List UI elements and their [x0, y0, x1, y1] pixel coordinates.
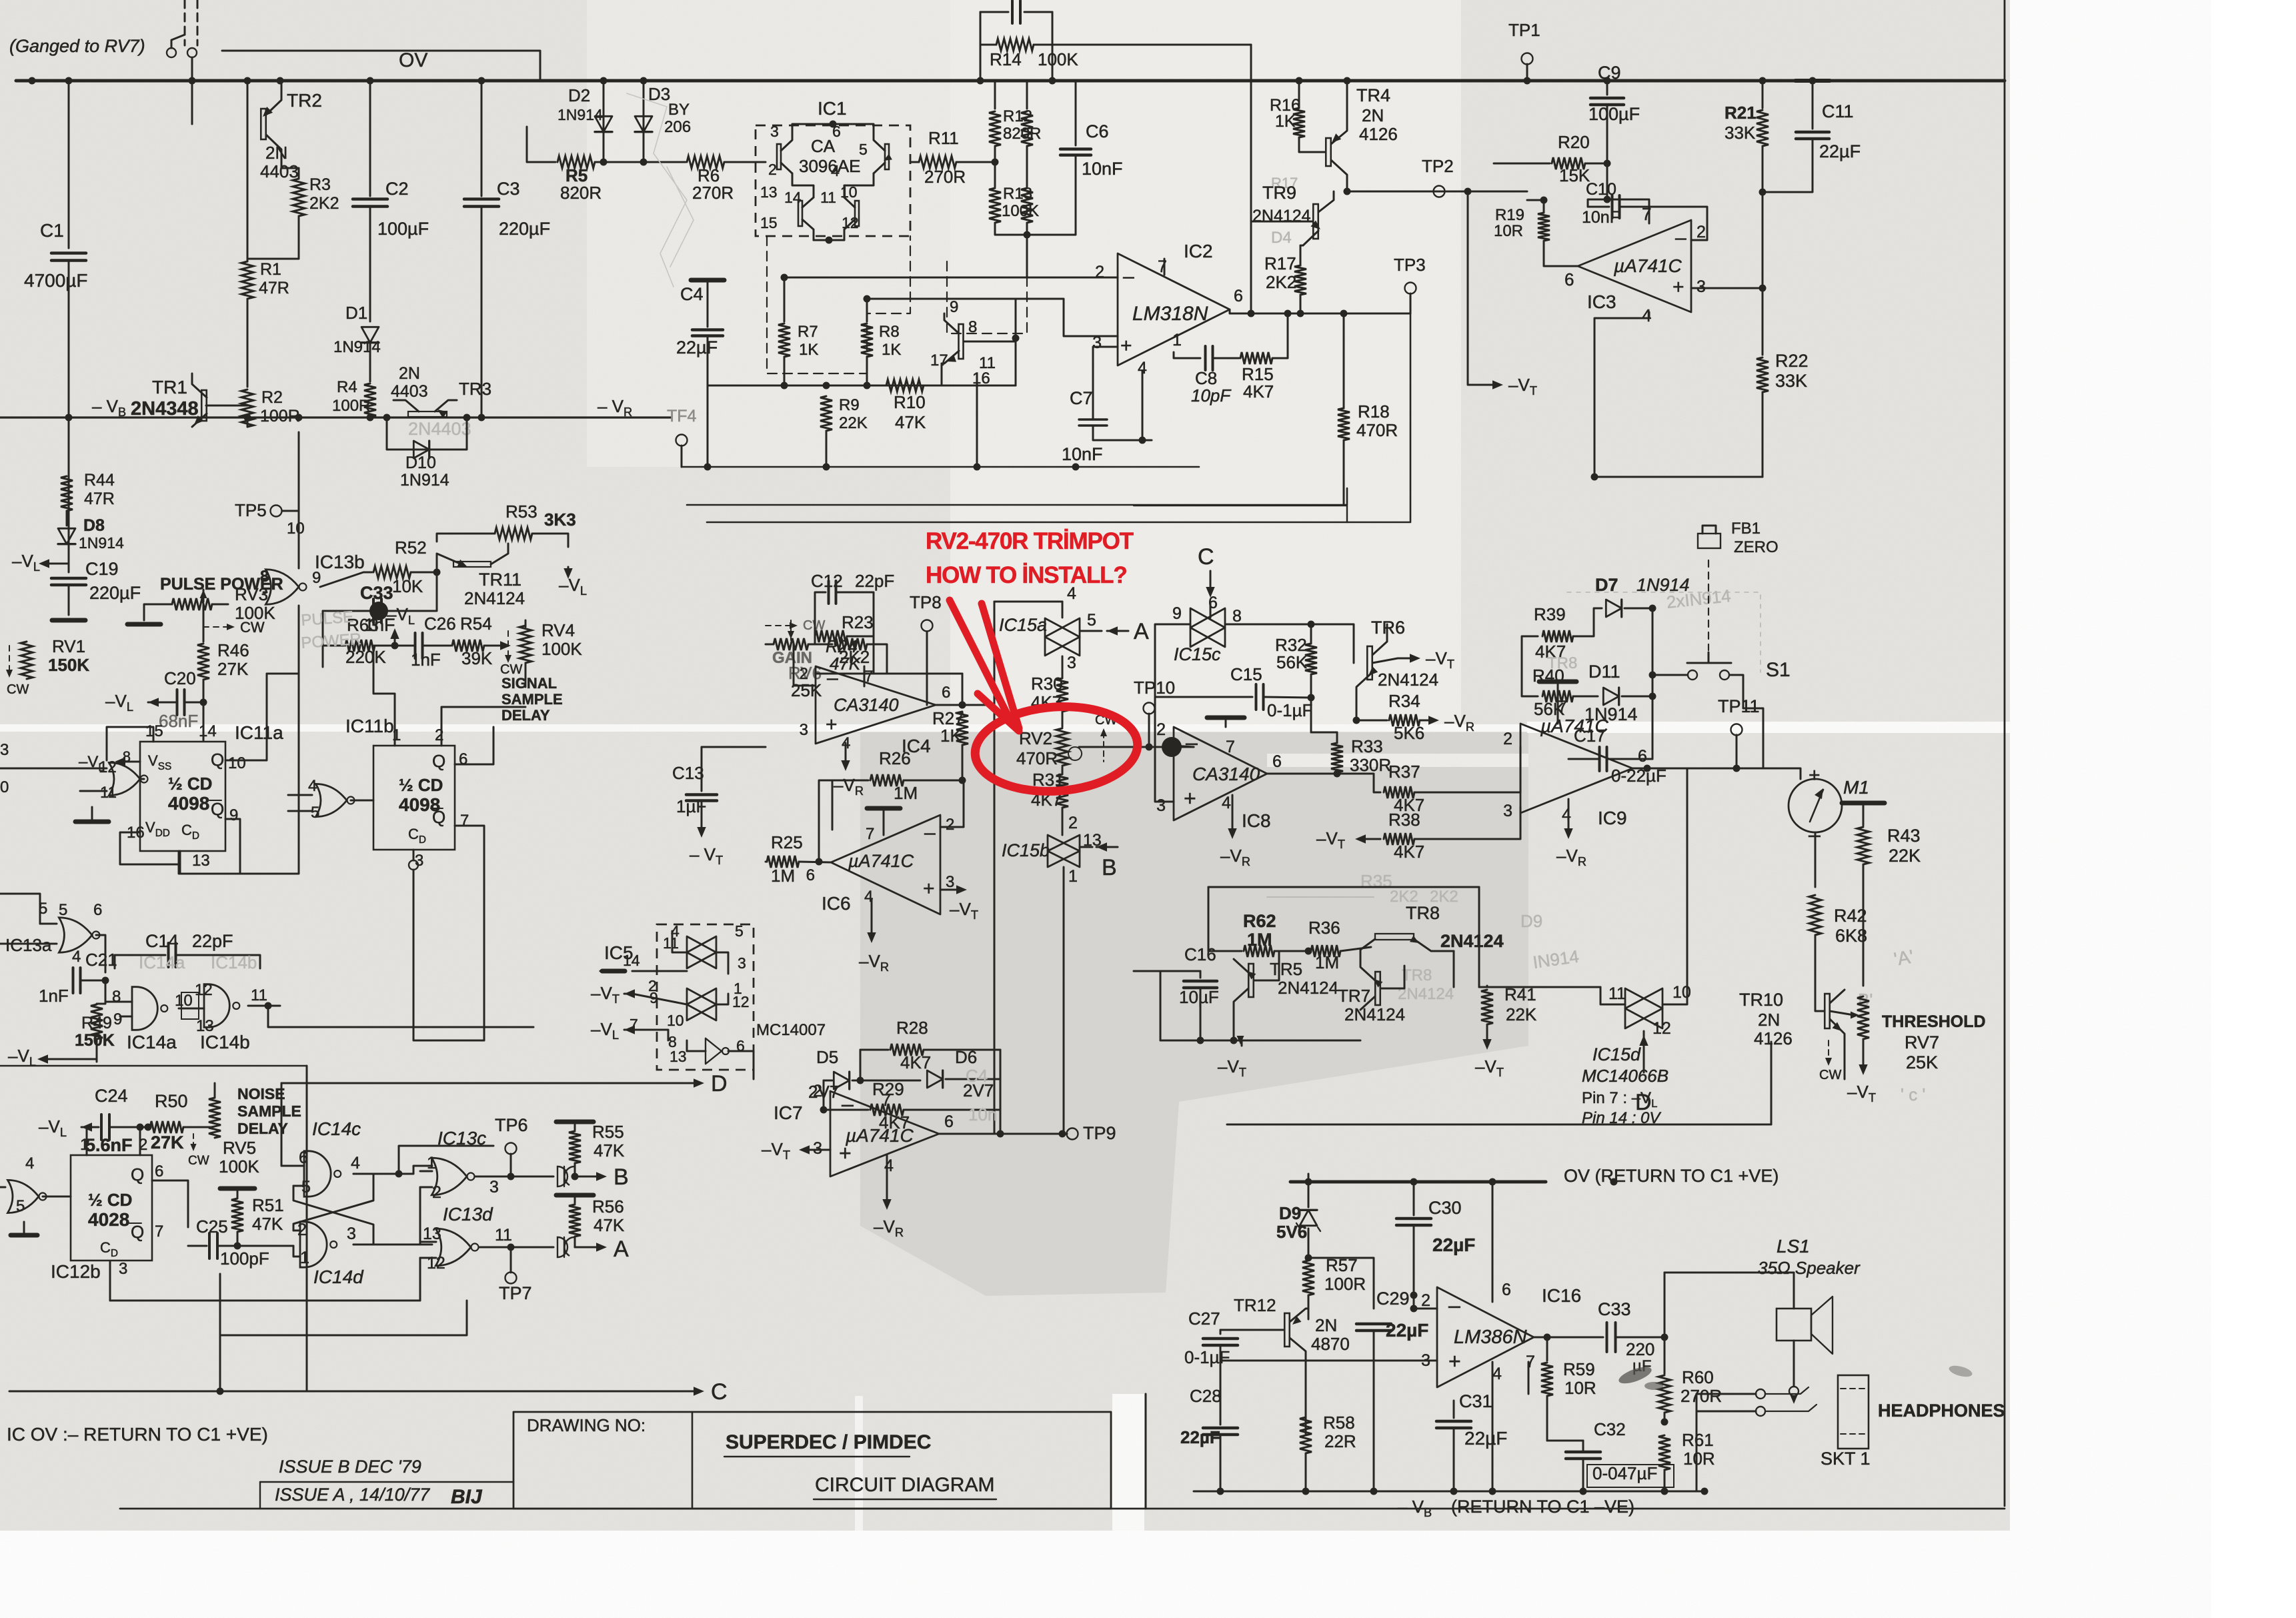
wire C7 bottom to pin4 [1093, 426, 1152, 440]
wire R13 bottom [995, 223, 1027, 235]
svg-text:BY: BY [668, 101, 690, 119]
wire C26 left [395, 645, 415, 647]
svg-text:10pF: 10pF [1191, 385, 1232, 406]
svg-text:B: B [614, 1164, 629, 1190]
node d7 d11 [1649, 605, 1656, 612]
svg-text:R55: R55 [592, 1122, 624, 1142]
transistor TR11 [453, 562, 491, 567]
switch S contacts top-left [167, 48, 176, 57]
svg-text:22µF: 22µF [1819, 141, 1861, 161]
svg-text:IC9: IC9 [1598, 808, 1627, 828]
wire out right [962, 704, 994, 706]
node r51 c25 [234, 1243, 241, 1250]
wire TP10 stub [1148, 714, 1150, 747]
NOR gate IC13c [431, 1158, 467, 1195]
node R19 TP2line [1540, 197, 1548, 204]
svg-text:R36: R36 [1308, 918, 1340, 938]
svg-text:R17: R17 [1264, 253, 1296, 273]
svg-text:3: 3 [347, 1225, 356, 1243]
svg-text:8: 8 [1232, 607, 1242, 626]
transistor Q inside IC1 b [885, 144, 889, 169]
resistor R6 [687, 156, 724, 168]
wire ic15d r [1662, 768, 1687, 1004]
svg-text:½ CD: ½ CD [168, 774, 212, 794]
wire bottom1598 [0, 1065, 307, 1066]
RV7 cw dashed [1828, 1040, 1829, 1062]
wire rail700 [682, 466, 1199, 468]
svg-text:+: + [1448, 1349, 1461, 1373]
wire 14d in1 [293, 1230, 300, 1232]
wire r57 bottom [1308, 1295, 1310, 1319]
svg-text:220µF: 220µF [89, 583, 141, 603]
wire ic15b down [1063, 867, 1065, 1134]
node 287 [1344, 188, 1351, 195]
svg-text:TR2: TR2 [287, 90, 322, 111]
wire R8 bottom [866, 357, 868, 385]
resistor R19 [1538, 213, 1550, 241]
wire ic8 pin4 [1232, 795, 1234, 835]
wire left down [1160, 971, 1162, 1040]
svg-text:–: – [1448, 1293, 1460, 1317]
wire rail758b [1134, 506, 1347, 522]
node 14b out [265, 1002, 272, 1010]
ground above R43 [1842, 801, 1885, 806]
wire C15 left [1155, 696, 1252, 698]
svg-text:B: B [1102, 855, 1117, 880]
svg-text:470R: 470R [1356, 420, 1398, 440]
svg-text:MC14007: MC14007 [756, 1021, 826, 1039]
svg-text:RV3: RV3 [235, 584, 268, 604]
svg-text:C19: C19 [85, 559, 119, 579]
white sliver bottom left page edge [855, 1396, 863, 1531]
wire TP1 stub [1526, 64, 1528, 81]
wire gnd stub [91, 807, 93, 819]
svg-text:A: A [1134, 619, 1149, 644]
wire mid rail 578 [708, 385, 1016, 387]
svg-text:9: 9 [312, 569, 321, 587]
svg-text:2N4124: 2N4124 [1344, 1004, 1405, 1024]
svg-text:C21: C21 [85, 950, 117, 970]
svg-text:TF4: TF4 [667, 407, 697, 426]
wire r59 bottom [1546, 1397, 1548, 1441]
svg-text:1nF: 1nF [39, 986, 69, 1006]
wire 14b out [248, 1005, 280, 1007]
svg-text:1nF: 1nF [411, 650, 441, 670]
svg-text:IC11b: IC11b [345, 716, 394, 736]
svg-text:56K: 56K [1276, 652, 1308, 672]
wire r58 bottom [1305, 1453, 1307, 1491]
node c33 r60 [1661, 1334, 1668, 1341]
svg-text:35Ω Speaker: 35Ω Speaker [1758, 1258, 1861, 1278]
svg-text:3: 3 [1696, 277, 1706, 296]
wire R24 left [814, 636, 816, 644]
resistor R42 [1809, 895, 1821, 935]
wire R14 left lead [980, 44, 996, 46]
svg-text:2N4124: 2N4124 [1378, 670, 1438, 690]
wire C19 bottom [68, 586, 70, 615]
svg-text:TP5: TP5 [235, 500, 267, 520]
wire R7 bottom [784, 357, 786, 385]
svg-text:C7: C7 [1070, 388, 1093, 408]
svg-text:D8: D8 [83, 516, 105, 535]
wire y1950 [110, 1300, 420, 1302]
wire y2002 [220, 1301, 467, 1335]
svg-text:13: 13 [670, 1048, 687, 1065]
junction dots R5 line [600, 159, 608, 166]
op-amp IC6 uA741C (points left) [831, 815, 940, 914]
smudge marks [1616, 1364, 1653, 1387]
svg-text:13: 13 [423, 1225, 441, 1243]
svg-text:12: 12 [195, 981, 213, 999]
issue box lines [260, 1481, 513, 1483]
wire R22 top [1762, 288, 1764, 355]
svg-text:3: 3 [489, 1178, 499, 1196]
svg-text:R52: R52 [395, 538, 427, 558]
wire pin4 down [1594, 312, 1649, 477]
svg-text:27K: 27K [217, 659, 249, 679]
wire c17 right [1607, 696, 1652, 759]
svg-text:R62: R62 [1243, 911, 1276, 931]
svg-text:6: 6 [944, 1112, 954, 1131]
wire C5R14 left vert [980, 12, 982, 81]
svg-text:7: 7 [1158, 257, 1167, 276]
ground above R51 [220, 1186, 255, 1191]
node tp10 [1146, 744, 1153, 751]
svg-text:C25: C25 [196, 1217, 228, 1237]
wire group bottom [1160, 1040, 1360, 1042]
wire R1 top [247, 81, 249, 261]
svg-text:820R: 820R [1003, 125, 1041, 143]
svg-text:'A': 'A' [1893, 946, 1915, 970]
node ic8 out [1334, 770, 1341, 778]
svg-text:C31: C31 [1459, 1391, 1492, 1411]
wire c31 bottom [1453, 1429, 1455, 1491]
paper grain overlay [0, 0, 1, 1]
svg-text:1N914: 1N914 [1584, 704, 1638, 724]
svg-text:MC14066B: MC14066B [1582, 1066, 1668, 1086]
svg-text:1M: 1M [771, 866, 795, 886]
wire 13d in1 [420, 1241, 436, 1243]
svg-text:22K: 22K [839, 414, 868, 432]
wire c27 top [1220, 1330, 1222, 1334]
wire right vert ic7 [1000, 1050, 1002, 1134]
svg-text:6: 6 [459, 750, 467, 768]
wire 0V bus [16, 79, 2005, 83]
svg-text:C20: C20 [164, 668, 196, 688]
svg-text:10nF: 10nF [1082, 159, 1123, 179]
wire ic5 b [716, 952, 728, 974]
trimpot RV2 [1056, 728, 1068, 766]
svg-text:2: 2 [1696, 223, 1706, 241]
wire r62 right [1274, 950, 1308, 952]
bowtie switch IC5 lower [687, 988, 716, 1020]
node r25 [816, 858, 823, 866]
wire audio VB bus [1194, 1491, 1707, 1493]
wire R10 right [924, 363, 942, 385]
svg-text:25K: 25K [1906, 1052, 1938, 1072]
svg-text:D11: D11 [1588, 662, 1620, 682]
svg-text:1: 1 [392, 726, 401, 744]
IC1 internal wires [792, 124, 874, 130]
svg-text:22pF: 22pF [855, 571, 894, 591]
wire r42 bottom [1815, 935, 1817, 994]
svg-text:C16: C16 [1184, 944, 1216, 964]
svg-text:TR9: TR9 [1262, 183, 1296, 203]
resistor R49 [91, 1004, 103, 1039]
wire C3 bottom [481, 207, 483, 418]
wire or in1 [288, 794, 312, 796]
svg-text:6: 6 [1502, 1281, 1511, 1299]
wire 13a out [96, 935, 105, 972]
rail700 nodes [704, 464, 712, 471]
svg-text:LS1: LS1 [1777, 1236, 1810, 1257]
svg-text:IC14a: IC14a [127, 1032, 177, 1052]
svg-text:R51: R51 [252, 1195, 284, 1215]
node 14c out [395, 1170, 403, 1178]
svg-text:1: 1 [1172, 331, 1182, 349]
svg-text:C33: C33 [360, 583, 393, 603]
svg-text:+: + [1809, 764, 1821, 786]
svg-text:2N4124: 2N4124 [464, 588, 525, 608]
svg-text:8: 8 [112, 988, 121, 1006]
svg-text:IC11a: IC11a [235, 722, 283, 743]
wire ic5 inv in [687, 1040, 706, 1051]
svg-text:6: 6 [155, 1162, 163, 1180]
svg-text:150K: 150K [75, 1031, 115, 1050]
svg-text:IC14c: IC14c [312, 1118, 361, 1139]
svg-text:R1: R1 [260, 260, 281, 279]
svg-text:+: + [826, 714, 838, 736]
node r27 [959, 702, 966, 709]
node plus line [1012, 335, 1020, 342]
svg-text:R46: R46 [217, 640, 249, 660]
RV3 cw arrow [203, 626, 230, 628]
wire vss stub [119, 761, 140, 763]
svg-text:½ CD: ½ CD [88, 1190, 132, 1210]
svg-text:PULSE: PULSE [301, 608, 354, 630]
wire RV6 right [808, 644, 832, 646]
svg-text:TP11: TP11 [1718, 696, 1760, 716]
wire C2 bottom [369, 207, 371, 321]
red arrow stroke 1 [950, 600, 1011, 722]
svg-text:10nF: 10nF [1582, 208, 1620, 227]
svg-text:C27: C27 [1188, 1309, 1220, 1329]
svg-text:IC3: IC3 [1587, 291, 1616, 312]
svg-text:39K: 39K [461, 648, 493, 668]
wire R9 bottom [826, 431, 828, 467]
svg-text:C12: C12 [811, 571, 843, 591]
transistor Q inside IC1 d [855, 201, 859, 226]
svg-text:47K: 47K [252, 1214, 283, 1234]
svg-text:47R: 47R [84, 490, 115, 508]
wire r29 left [824, 1109, 868, 1111]
svg-text:9: 9 [229, 806, 238, 824]
svg-text:2K2: 2K2 [309, 194, 339, 213]
wire b arrow [575, 1176, 602, 1178]
svg-text:IC15a: IC15a [999, 615, 1047, 635]
wire ic5 14 [632, 970, 687, 972]
transistor TR1 [201, 390, 207, 421]
capacitor C26 [414, 633, 417, 658]
svg-text:11: 11 [251, 986, 267, 1004]
wire R18 top [1343, 313, 1345, 408]
svg-text:4126: 4126 [1754, 1028, 1793, 1048]
svg-text:CW: CW [188, 1154, 209, 1168]
wire C5R14 right vert [1052, 12, 1054, 81]
wire c28 bottom [1220, 1436, 1222, 1491]
OR gate IC11b input [316, 784, 347, 816]
svg-text:C32: C32 [1594, 1419, 1626, 1439]
svg-text:NOISE: NOISE [237, 1085, 285, 1102]
node c30 pin2 [1410, 1292, 1418, 1299]
svg-text:10R: 10R [1683, 1449, 1715, 1469]
svg-text:6: 6 [93, 901, 102, 919]
wire R21 top [1762, 81, 1764, 108]
wire fb up to R26 [819, 780, 832, 862]
svg-text:330R: 330R [1350, 755, 1391, 775]
potentiometer RV1 [21, 642, 33, 679]
wire r3940 left [1522, 636, 1531, 696]
wire R46 to IC11a pin14 [203, 702, 205, 740]
wire r32c15 down [1310, 698, 1312, 732]
FB1 ZERO pushbutton [1698, 534, 1720, 548]
wire ic9 out [1632, 768, 1737, 770]
svg-text:TR3: TR3 [459, 379, 491, 399]
svg-text:4: 4 [884, 1156, 894, 1175]
test point TP2 [1434, 186, 1445, 197]
svg-text:11: 11 [495, 1226, 512, 1245]
wire pin15 [107, 727, 153, 760]
svg-text:2: 2 [813, 1082, 822, 1100]
svg-text:D: D [711, 1071, 728, 1096]
wire R11 to R12R13 node [956, 161, 995, 163]
op-amp IC3 uA741C (points left) [1578, 220, 1691, 312]
wire R6 right [724, 161, 766, 163]
node R21 C11 [1759, 189, 1767, 196]
svg-text:4028: 4028 [88, 1209, 129, 1230]
svg-text:TR8: TR8 [1547, 654, 1577, 672]
wire C line [9, 1391, 699, 1393]
svg-text:7: 7 [864, 668, 873, 686]
wire C21 right [81, 980, 105, 982]
wire VL line [40, 1058, 97, 1060]
wire pin7 down [1528, 1362, 1530, 1394]
wire switch to TR2 base [191, 57, 193, 124]
svg-text:14: 14 [784, 189, 802, 206]
svg-text:RV2-470R TRİMPOT: RV2-470R TRİMPOT [926, 528, 1134, 554]
wire R14 to fb vert [1052, 44, 1251, 46]
svg-text:22K: 22K [1506, 1004, 1537, 1024]
svg-text:220: 220 [1626, 1339, 1654, 1359]
NOR gate IC13b [265, 570, 299, 604]
wire q6 down [152, 1180, 188, 1227]
capacitor C29 [1356, 1323, 1391, 1326]
svg-text:TP6: TP6 [495, 1115, 528, 1135]
wire C33 right [381, 572, 437, 611]
wire -VT [1468, 191, 1498, 385]
svg-text:R38: R38 [1388, 810, 1420, 830]
wire R44-D8 [66, 511, 68, 526]
op-amp IC16 LM386N [1437, 1287, 1534, 1387]
wire C9 bottom [1606, 106, 1608, 163]
wire R44 top [68, 418, 70, 475]
wire R26 left [832, 780, 868, 782]
svg-text:12: 12 [427, 1254, 445, 1273]
wire R34 left [1356, 720, 1387, 722]
wire inv line [816, 673, 874, 675]
svg-text:3: 3 [738, 954, 746, 972]
svg-text:CIRCUIT DIAGRAM: CIRCUIT DIAGRAM [815, 1474, 994, 1496]
node R46 C20 [200, 699, 207, 706]
node out [1248, 310, 1255, 317]
resistor R32 [1305, 644, 1317, 674]
wire r56 gnd [574, 1195, 576, 1203]
svg-text:+: + [1120, 335, 1132, 357]
svg-text:IC8: IC8 [1242, 810, 1271, 831]
wire R8 top [866, 299, 868, 321]
svg-text:22µF: 22µF [1464, 1428, 1507, 1449]
svg-text:C4: C4 [966, 1066, 988, 1086]
svg-text:TR5: TR5 [1270, 959, 1302, 979]
svg-text:10nF: 10nF [1062, 444, 1103, 464]
svg-text:4: 4 [1492, 1365, 1502, 1383]
svg-text:SAMPLE: SAMPLE [237, 1102, 301, 1120]
test point TP10 [1144, 703, 1155, 714]
wire c28 top [1220, 1414, 1222, 1425]
wire c25 l [188, 1245, 207, 1247]
wire upper link [222, 51, 540, 81]
svg-text:R39: R39 [1534, 604, 1566, 624]
NOR gate IC13d [435, 1229, 471, 1266]
wire C7 top lead [1093, 347, 1118, 420]
svg-text:RV7: RV7 [1905, 1032, 1939, 1052]
transistor TR6 [1367, 646, 1372, 680]
wire c33a left [1574, 1337, 1603, 1339]
svg-text:10: 10 [287, 520, 305, 538]
svg-text:12: 12 [732, 993, 750, 1010]
svg-text:7: 7 [1526, 1353, 1535, 1371]
wire d11 right [1622, 696, 1652, 698]
svg-text:IC2: IC2 [1184, 241, 1213, 261]
wire fb right [962, 674, 964, 705]
svg-text:BIJ: BIJ [451, 1486, 483, 1508]
svg-text:C2: C2 [385, 179, 409, 199]
ground below C19 [52, 618, 85, 623]
wire R46 top [203, 604, 205, 642]
wire loop l [1479, 986, 1600, 988]
svg-text:RV5: RV5 [223, 1138, 256, 1158]
svg-text:CW: CW [1819, 1068, 1841, 1082]
wire r55 bottom [574, 1163, 576, 1176]
svg-text:4700µF: 4700µF [24, 270, 88, 291]
ground RV3 [127, 622, 161, 627]
wire pin16 down [976, 373, 978, 467]
svg-text:TP3: TP3 [1394, 255, 1426, 275]
svg-text:C30: C30 [1428, 1198, 1462, 1218]
wire cross a [293, 1174, 373, 1231]
title block divider [692, 1412, 694, 1509]
svg-text:4403: 4403 [391, 382, 428, 401]
wire c25 to 14d [237, 1245, 293, 1247]
wire c31 top [1453, 1401, 1455, 1418]
node r50 [145, 1124, 152, 1131]
svg-text:100R: 100R [332, 397, 370, 415]
wire Q6 [455, 727, 493, 764]
svg-text:47K: 47K [594, 1215, 625, 1235]
wire R31 bottom [1062, 808, 1064, 835]
wire R17 top [1300, 245, 1302, 265]
resistor R36 [1311, 945, 1340, 957]
